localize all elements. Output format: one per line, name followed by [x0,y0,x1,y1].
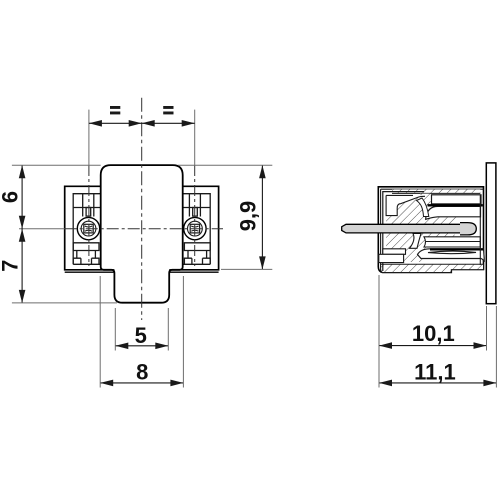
leaf spring in lower slot [428,251,476,254]
extension line panel face [486,306,488,351]
equals symbol left [110,106,120,109]
white box upper right [432,195,482,204]
horizontal centerline through screws [19,228,65,230]
snout shelf lines under body [101,269,183,271]
left screw inner circle [81,221,96,236]
main vertical centerline [141,98,143,320]
dimension line 5 [115,345,168,347]
panel plate [486,163,496,304]
white channel above pin [417,198,429,217]
extension line body top right [178,164,272,166]
extension line side front face [378,275,380,388]
white band below pin [424,237,480,247]
extension line snout left [114,308,116,351]
extension line snout bottom [12,302,117,304]
offset line 2 and block top boundary [386,195,425,215]
lower slot with beak [418,249,485,262]
svg-text:11,1: 11,1 [414,360,456,385]
arrowheads equal spacing dimension [89,120,102,127]
right screw outer circle [184,217,206,239]
hatch wedge above pin right [424,217,460,225]
svg-text:8: 8 [136,360,148,385]
hatch block mid around pin [386,216,430,249]
extension line panel back [495,306,497,388]
left screw outer circle [77,217,99,239]
svg-text:5: 5 [135,323,147,348]
equals symbol right [163,106,173,109]
extension line snout right [167,308,169,351]
extension line body right [182,276,184,388]
inner box outline [383,192,424,271]
podium below screw [73,243,99,264]
left flange inner frame [73,194,101,265]
hatch join top [420,194,431,207]
inner wall line right [479,195,481,265]
svg-text:7: 7 [0,260,23,272]
upper slot with beak [426,206,481,219]
left screw centerline vertical [88,110,90,165]
white channel below pin [410,234,422,249]
right screw inner circle [188,221,203,236]
arrowheads dimension 8 [100,380,113,387]
hatch block lower [404,249,424,262]
arrowheads dimension 11,1 [379,380,392,387]
lower slot top thick edge [430,248,484,250]
flange plate outline [65,186,219,269]
central body outline (white fill over flange) [101,165,183,303]
hatch wedge below pin right [424,233,460,237]
extension line body top left [12,164,101,166]
svg-text:9,9: 9,9 [236,201,261,232]
dimension line 6 and 7 left [21,165,23,303]
pin end cap [460,223,476,235]
extension line flange bottom right [221,268,272,270]
white steps bottom left [383,249,406,255]
upper slot top thick edge [428,204,483,206]
body outer outline [378,187,483,273]
arrowheads dimension 6 [19,165,26,178]
hatch block upper (right of white column) [397,196,430,215]
right screw centerline vertical [194,110,196,165]
flange bottom shelf (thick double line) [65,271,219,273]
dimension line 8 [100,382,183,384]
inner offset top/left lines [381,189,484,271]
arrowheads dimension 9,9 [259,165,266,178]
dimension line 11,1 [379,382,496,384]
svg-text:10,1: 10,1 [412,321,455,346]
teeth row above screw [73,194,101,217]
top hatch band [392,189,480,193]
peg above screw [86,208,91,217]
arrowheads dimension 10,1 [379,342,392,349]
bottom hatch band [381,264,484,272]
left screw square drive [84,224,93,233]
right flange inner frame [183,194,211,265]
dimension line 10,1 [379,345,487,347]
arrowheads dimension 5 [115,343,128,350]
pin [342,224,468,233]
right screw square drive [190,224,199,233]
svg-text:6: 6 [0,191,23,203]
extension line body left [99,276,101,388]
arrowheads dimension 7 [19,229,26,242]
dimension line 9,9 [261,165,263,269]
dimension line equal spacing top [89,122,195,124]
